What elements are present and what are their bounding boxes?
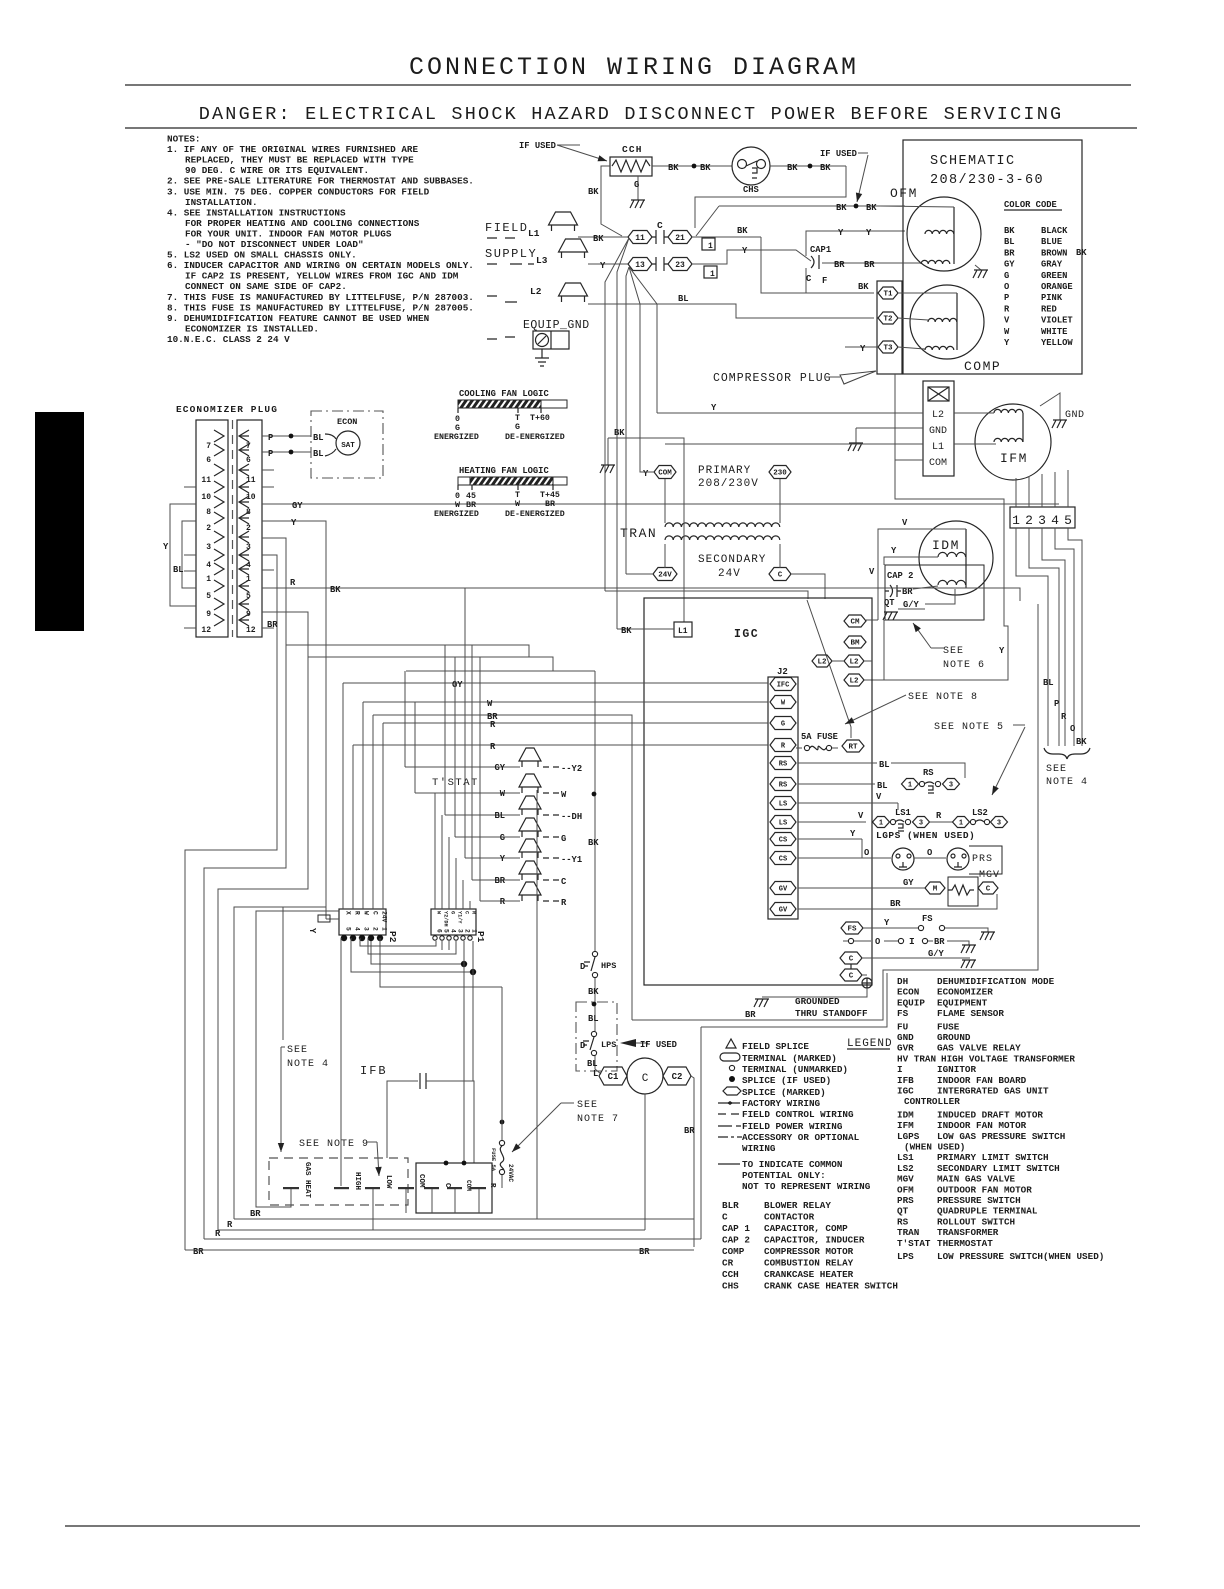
svg-text:GND: GND [897, 1032, 914, 1043]
wire C circle bottom down [644, 1094, 646, 1230]
svg-text:CONTACTOR: CONTACTOR [764, 1212, 815, 1223]
svg-text:BK: BK [700, 163, 711, 173]
grounded thru standoff [862, 974, 867, 976]
svg-text:DANGER: ELECTRICAL SHOCK HAZAR: DANGER: ELECTRICAL SHOCK HAZARD DISCONNE… [199, 104, 1064, 125]
svg-text:COM: COM [929, 458, 947, 469]
svg-text:HIGH VOLTAGE TRANSFORMER: HIGH VOLTAGE TRANSFORMER [941, 1053, 1075, 1064]
svg-text:GY: GY [292, 501, 303, 511]
svg-text:BK: BK [1004, 226, 1015, 236]
svg-text:VIOLET: VIOLET [1041, 316, 1073, 326]
svg-text:FS: FS [847, 926, 857, 934]
svg-text:PRS: PRS [897, 1195, 914, 1206]
wire HPS to LPS [594, 978, 596, 1031]
svg-text:9. DEHUMIDIFICATION FEATURE CA: 9. DEHUMIDIFICATION FEATURE CANNOT BE US… [167, 313, 429, 324]
left loop Y [170, 504, 196, 606]
svg-text:CR: CR [722, 1258, 734, 1269]
svg-text:F: F [822, 276, 827, 286]
svg-text:0: 0 [455, 415, 460, 424]
right stubs [262, 470, 274, 628]
svg-text:GVR: GVR [897, 1043, 914, 1054]
svg-text:BL: BL [877, 781, 888, 791]
svg-text:COLOR CODE: COLOR CODE [1004, 200, 1057, 210]
wire R horizontal lower [353, 744, 768, 746]
wire 21 to BK corner down [692, 236, 761, 238]
svg-text:3. USE MIN. 75 DEG. COPPER CON: 3. USE MIN. 75 DEG. COPPER CONDUCTORS FO… [167, 186, 430, 197]
svg-text:G: G [1004, 271, 1009, 281]
svg-text:FIELD SPLICE: FIELD SPLICE [742, 1041, 809, 1052]
long vertical to BR bottom [536, 790, 538, 1219]
svg-text:BK: BK [858, 282, 869, 292]
24VAC fuse [500, 1120, 505, 1125]
svg-text:P: P [1004, 293, 1009, 303]
svg-text:CRANK CASE HEATER SWITCH: CRANK CASE HEATER SWITCH [764, 1281, 898, 1292]
secondary winding [665, 536, 780, 540]
svg-text:MAIN GAS VALVE: MAIN GAS VALVE [937, 1174, 1016, 1185]
svg-text:COM: COM [417, 1174, 425, 1188]
svg-text:CCH: CCH [722, 1269, 739, 1280]
svg-text:C: C [806, 274, 812, 284]
svg-text:IGNITOR: IGNITOR [937, 1064, 976, 1075]
svg-text:BR: BR [1004, 248, 1015, 258]
svg-text:G: G [515, 423, 520, 432]
svg-text:CAP1: CAP1 [810, 245, 831, 255]
svg-text:V: V [902, 518, 908, 528]
svg-text:PRIMARY: PRIMARY [698, 465, 751, 477]
svg-text:RED: RED [1041, 304, 1057, 314]
svg-text:IF USED: IF USED [640, 1040, 677, 1050]
svg-text:CCH: CCH [622, 144, 643, 155]
primary leads [664, 479, 666, 523]
svg-text:R: R [1004, 304, 1010, 314]
svg-text:NOTE 6: NOTE 6 [943, 660, 985, 671]
svg-text:4. SEE INSTALLATION INSTRUCTIO: 4. SEE INSTALLATION INSTRUCTIONS [167, 207, 346, 218]
economizer plug left shell [196, 420, 228, 637]
wire C to G/Y ground [862, 957, 970, 959]
wire GY from pin8 [262, 503, 1059, 505]
wire BR into OFM [878, 262, 921, 264]
svg-text:V: V [1004, 316, 1010, 326]
svg-text:W: W [363, 911, 370, 915]
fan-out diagonals from contactor 13 [626, 267, 629, 574]
svg-text:LS1: LS1 [897, 1152, 914, 1163]
wire C horizontal top [308, 657, 553, 671]
svg-text:LEGEND: LEGEND [847, 1038, 893, 1050]
wire pin7 to ECON BL [262, 435, 311, 437]
svg-text:CAPACITOR, INDUCER: CAPACITOR, INDUCER [764, 1235, 865, 1246]
svg-text:24V: 24V [381, 911, 388, 923]
svg-text:Y: Y [307, 928, 317, 934]
legend factory wiring symbol [718, 1102, 740, 1104]
crank case heater switch CHS [732, 147, 770, 185]
svg-text:12: 12 [246, 626, 256, 635]
svg-text:1: 1 [959, 820, 963, 828]
svg-text:3: 3 [949, 782, 953, 790]
svg-text:3: 3 [206, 543, 211, 552]
wire P1 pin2 down to IFB board [463, 941, 465, 1163]
legend splice if used symbol [729, 1076, 735, 1082]
wire CAP1 to OFM (BR) [822, 262, 920, 264]
staircase wires plug to harness [1016, 528, 1048, 746]
legend field power wiring symbol [718, 1125, 741, 1127]
svg-text:HV TRAN: HV TRAN [897, 1053, 936, 1064]
wire L2 splice to terminal T2 [588, 304, 874, 318]
svg-text:BK: BK [787, 163, 798, 173]
svg-text:SCHEMATIC: SCHEMATIC [930, 154, 1016, 169]
wire W horizontal [363, 701, 768, 703]
wire L1 splice to hex 11 [578, 236, 628, 238]
svg-text:11: 11 [635, 234, 645, 243]
svg-text:GAS HEAT: GAS HEAT [303, 1162, 311, 1199]
svg-text:TO INDICATE COMMON: TO INDICATE COMMON [742, 1159, 842, 1170]
wire GV BR to MGV [798, 894, 997, 909]
svg-text:3: 3 [919, 820, 923, 828]
svg-text:MGV: MGV [979, 870, 1000, 881]
svg-text:2: 2 [372, 927, 379, 931]
wire Y from pin2 down left side [262, 521, 326, 919]
CAP1 top lead and Y wire to OFM [806, 231, 905, 256]
svg-text:1. IF ANY OF THE ORIGINAL WIRE: 1. IF ANY OF THE ORIGINAL WIRES FURNISHE… [167, 144, 418, 155]
marker 1 under 21 [702, 238, 715, 250]
svg-text:M: M [933, 886, 938, 894]
svg-text:FOR PROPER HEATING AND COOLING: FOR PROPER HEATING AND COOLING CONNECTIO… [185, 218, 420, 229]
svg-text:8. THIS FUSE IS MANUFACTURED B: 8. THIS FUSE IS MANUFACTURED BY LITTELFU… [167, 302, 474, 313]
svg-text:208/230V: 208/230V [698, 478, 759, 490]
wire BR bottom 1 [234, 1218, 694, 1220]
legend common potential symbol [718, 1163, 740, 1165]
svg-text:GND: GND [1065, 410, 1085, 421]
svg-text:TERMINAL (UNMARKED): TERMINAL (UNMARKED) [742, 1064, 848, 1075]
svg-text:R: R [354, 911, 361, 915]
svg-text:FIELD CONTROL WIRING: FIELD CONTROL WIRING [742, 1109, 854, 1120]
svg-text:BLOWER RELAY: BLOWER RELAY [764, 1200, 831, 1211]
svg-text:CM: CM [850, 619, 860, 627]
svg-text:CS: CS [779, 856, 787, 864]
svg-text:L3: L3 [536, 255, 548, 266]
terminal RT [842, 740, 864, 752]
field splice T-STAT G [455, 836, 520, 838]
svg-text:NOTES:: NOTES: [167, 134, 200, 145]
svg-text:Y: Y [291, 518, 297, 528]
svg-text:45: 45 [466, 492, 476, 501]
wire C hex to IGC edge [791, 574, 825, 599]
wire around legend corner [701, 973, 887, 1027]
svg-text:GND: GND [929, 426, 947, 437]
mating dashed line [232, 420, 234, 637]
svg-text:G: G [455, 424, 460, 433]
svg-text:OFM: OFM [897, 1184, 914, 1195]
svg-text:SECONDARY LIMIT SWITCH: SECONDARY LIMIT SWITCH [937, 1163, 1060, 1174]
svg-text:WHITE: WHITE [1041, 327, 1067, 337]
svg-text:T+45: T+45 [540, 491, 560, 500]
svg-text:V: V [869, 567, 875, 577]
svg-text:IFM: IFM [897, 1120, 914, 1131]
gas heat dashed box [269, 1158, 408, 1205]
legend splice marked symbol [723, 1087, 741, 1095]
svg-text:LGPS (WHEN USED): LGPS (WHEN USED) [876, 830, 975, 841]
svg-text:LS2: LS2 [897, 1163, 914, 1174]
svg-text:BR: BR [934, 937, 945, 947]
svg-text:IFM: IFM [1000, 451, 1028, 466]
wire BK to L1 [617, 628, 674, 630]
svg-text:(WHEN USED): (WHEN USED) [904, 1142, 965, 1153]
wire BR horizontal [373, 715, 632, 1020]
contactor coil C2 [663, 1067, 691, 1085]
bottom rule [65, 1525, 1140, 1527]
svg-text:IFB: IFB [360, 1064, 388, 1078]
svg-text:SEE: SEE [1046, 764, 1067, 775]
svg-text:FU: FU [897, 1021, 908, 1032]
svg-text:ENERGIZED: ENERGIZED [434, 433, 479, 442]
svg-text:24V: 24V [658, 572, 672, 580]
low pressure switch LPS [591, 1031, 596, 1036]
svg-text:Y: Y [1004, 338, 1010, 348]
wire L1 row left [665, 443, 923, 445]
wire R from pin3 down [204, 538, 286, 1239]
svg-text:COMP: COMP [964, 359, 1001, 374]
svg-text:O: O [927, 848, 932, 858]
contactor coil C1 [599, 1067, 627, 1085]
wire R bottom 3 [204, 1238, 701, 1240]
high pressure switch HPS [592, 951, 597, 956]
svg-text:C: C [657, 220, 663, 231]
svg-text:IF USED: IF USED [820, 149, 857, 159]
wire stub to ignitor row [843, 940, 848, 942]
svg-text:LOW GAS PRESSURE SWITCH: LOW GAS PRESSURE SWITCH [937, 1131, 1065, 1142]
IFB relay box [416, 1163, 492, 1213]
svg-text:L2: L2 [849, 659, 859, 667]
svg-text:RS: RS [923, 768, 934, 778]
svg-text:SEE NOTE 8: SEE NOTE 8 [908, 692, 978, 703]
svg-text:GY: GY [452, 680, 463, 690]
label IF USED (LPS) [620, 1039, 636, 1047]
wire CCH right with splices to CHS [652, 165, 732, 167]
ignitor row [848, 938, 853, 943]
svg-text:CHS: CHS [722, 1281, 739, 1292]
svg-text:BL: BL [313, 433, 324, 443]
svg-text:D: D [580, 1041, 585, 1051]
capacitor CAP2 box [885, 565, 984, 620]
svg-text:BL: BL [173, 565, 184, 575]
svg-text:QT: QT [897, 1206, 909, 1217]
svg-text:FS: FS [922, 914, 933, 924]
svg-text:Y: Y [600, 261, 606, 271]
svg-text:X: X [345, 911, 352, 915]
svg-text:Y: Y [500, 854, 506, 864]
svg-text:1: 1 [246, 575, 251, 584]
svg-text:BL: BL [588, 1014, 599, 1024]
svg-text:C: C [849, 973, 854, 981]
HPS splice [592, 792, 597, 797]
svg-text:I: I [909, 936, 915, 947]
svg-text:LOW PRESSURE SWITCH(WHEN USED): LOW PRESSURE SWITCH(WHEN USED) [937, 1251, 1104, 1262]
svg-text:W: W [500, 789, 506, 799]
svg-text:FOR YOUR UNIT. INDOOR FAN MOTO: FOR YOUR UNIT. INDOOR FAN MOTOR PLUGS [185, 228, 392, 239]
svg-text:G: G [561, 834, 566, 844]
terminal L1 on IGC [674, 622, 692, 637]
field splice T-STAT W [415, 792, 520, 794]
terminal 230 [769, 466, 791, 479]
svg-text:BK: BK [668, 163, 679, 173]
svg-text:NOTE 4: NOTE 4 [287, 1059, 329, 1070]
wire CS to Y [798, 838, 862, 840]
svg-text:OUTDOOR FAN MOTOR: OUTDOOR FAN MOTOR [937, 1184, 1032, 1195]
svg-text:T1: T1 [883, 291, 893, 299]
economizer accessory dashed box ECON [311, 411, 383, 478]
svg-text:FIELD: FIELD [485, 221, 529, 235]
svg-text:R: R [500, 897, 506, 907]
IDM winding frame [965, 529, 967, 588]
svg-text:CHS: CHS [743, 185, 759, 195]
svg-text:NOTE 4: NOTE 4 [1046, 777, 1088, 788]
wires T1 T2 T3 into COMP [898, 292, 957, 294]
svg-text:NOT TO REPRESENT WIRING: NOT TO REPRESENT WIRING [742, 1181, 871, 1192]
terminals C C on IGC [840, 952, 862, 964]
svg-text:P: P [1054, 699, 1059, 709]
economizer plug right shell [237, 420, 262, 637]
terminal BM [844, 636, 866, 648]
svg-text:C: C [372, 911, 379, 915]
svg-text:PRS: PRS [972, 854, 993, 865]
terminal T1 [878, 287, 898, 299]
svg-text:24VAC: 24VAC [507, 1164, 514, 1182]
wire GND row to ground [856, 427, 923, 429]
svg-text:IFB: IFB [897, 1075, 914, 1086]
quadruple terminal QT block [923, 381, 954, 476]
svg-text:GREEN: GREEN [1041, 271, 1067, 281]
svg-text:LS2: LS2 [972, 808, 988, 818]
marker 1 under 23 [704, 266, 717, 278]
leader arrow to plug [826, 376, 840, 378]
wire 24V left [626, 573, 653, 575]
svg-text:J2: J2 [777, 667, 788, 677]
svg-text:LPS: LPS [897, 1251, 914, 1262]
leader to CCH [557, 145, 607, 161]
svg-text:1: 1 [381, 927, 388, 931]
economizer pin contacts and numbers [214, 430, 224, 442]
svg-text:GV: GV [779, 907, 788, 915]
svg-text:FACTORY WIRING: FACTORY WIRING [742, 1098, 821, 1109]
svg-text:Y: Y [999, 646, 1005, 656]
svg-text:2: 2 [206, 524, 211, 533]
svg-text:C: C [986, 886, 991, 894]
svg-text:ORANGE: ORANGE [1041, 282, 1073, 292]
P2 feed verticals [342, 683, 344, 909]
svg-text:RT: RT [848, 744, 858, 752]
wire LS upper row to LS2 [897, 803, 899, 810]
wire BK into OFM [880, 206, 954, 207]
svg-text:Y: Y [891, 546, 897, 556]
ground under EQUIP_GND [535, 349, 549, 366]
svg-text:CAPACITOR, COMP: CAPACITOR, COMP [764, 1223, 848, 1234]
svg-text:GAS VALVE RELAY: GAS VALVE RELAY [937, 1043, 1021, 1054]
svg-text:SPLICE (IF USED): SPLICE (IF USED) [742, 1075, 831, 1086]
svg-text:1: 1 [708, 242, 713, 251]
terminal C (IFB) [424, 1187, 439, 1189]
Y splice box into P2 [326, 918, 339, 920]
svg-text:G/Y: G/Y [928, 949, 945, 959]
svg-text:PINK: PINK [1041, 293, 1063, 303]
svg-text:COM: COM [465, 1180, 472, 1191]
svg-text:COMP: COMP [722, 1246, 745, 1257]
contactor coil C [627, 1058, 663, 1094]
wire COM row loop to L2 [864, 460, 1008, 680]
svg-text:1: 1 [908, 782, 912, 790]
svg-text:4: 4 [450, 929, 457, 933]
svg-text:Y: Y [866, 228, 872, 238]
svg-text:208/230-3-60: 208/230-3-60 [930, 173, 1044, 188]
wire cap left lead [387, 1081, 418, 1158]
svg-text:QT: QT [884, 598, 895, 608]
svg-text:P: P [268, 433, 273, 443]
svg-text:3: 3 [457, 929, 464, 933]
svg-text:W: W [561, 790, 567, 800]
svg-text:HIGH: HIGH [353, 1172, 361, 1190]
wire CAP2 corner drop [883, 620, 885, 680]
wire CM to CAP2 column [866, 619, 878, 621]
svg-text:BK: BK [836, 203, 847, 213]
svg-text:BK: BK [1076, 248, 1087, 258]
svg-text:FIELD POWER WIRING: FIELD POWER WIRING [742, 1121, 843, 1132]
svg-text:LPS: LPS [601, 1040, 616, 1050]
svg-text:5: 5 [1064, 513, 1072, 528]
svg-text:LS: LS [779, 801, 787, 809]
wire IFM to ground GND [1040, 393, 1060, 420]
legend field control wiring symbol [718, 1113, 739, 1115]
wire P1 pin1 down to IFB cap wire [472, 941, 474, 1081]
svg-text:11: 11 [246, 476, 256, 485]
svg-text:COOLING FAN LOGIC: COOLING FAN LOGIC [459, 389, 549, 399]
svg-text:6: 6 [206, 456, 211, 465]
svg-text:COMPRESSOR MOTOR: COMPRESSOR MOTOR [764, 1246, 854, 1257]
svg-text:BLR: BLR [722, 1200, 739, 1211]
svg-text:EQUIP: EQUIP [897, 997, 925, 1008]
svg-text:Y: Y [884, 918, 890, 928]
terminal T2 [878, 312, 898, 324]
svg-text:TRAN: TRAN [897, 1227, 919, 1238]
svg-text:POTENTIAL ONLY:: POTENTIAL ONLY: [742, 1170, 826, 1181]
svg-text:INTERGRATED GAS UNIT: INTERGRATED GAS UNIT [937, 1086, 1049, 1097]
svg-text:GROUND: GROUND [937, 1032, 971, 1043]
svg-text:TRANSFORMER: TRANSFORMER [937, 1227, 999, 1238]
svg-text:--Y1: --Y1 [561, 855, 582, 865]
wire branch to left nest [234, 907, 326, 1219]
svg-text:5A FUSE: 5A FUSE [801, 732, 838, 742]
diagonal from hex 21 to BK wire [696, 206, 719, 236]
svg-text:ROLLOUT SWITCH: ROLLOUT SWITCH [937, 1216, 1015, 1227]
svg-text:SEE: SEE [943, 646, 964, 657]
legend accessory wiring symbol [718, 1136, 742, 1138]
svg-text:MGV: MGV [897, 1174, 914, 1185]
svg-text:SUPPLY: SUPPLY [485, 247, 537, 261]
svg-text:O: O [875, 937, 880, 947]
terminal LOW [365, 1187, 380, 1189]
wire BK from pin5 [262, 588, 1020, 601]
svg-text:230: 230 [773, 470, 787, 478]
svg-text:W: W [487, 699, 493, 709]
svg-text:CAP 2: CAP 2 [887, 571, 913, 581]
svg-text:BROWN: BROWN [1041, 248, 1067, 258]
contactor contact C (pole 2) [652, 257, 668, 271]
svg-text:6: 6 [436, 929, 443, 933]
contactor pole terminal 23 [668, 258, 692, 271]
svg-text:RS: RS [779, 761, 787, 769]
wire GY long horizontal [343, 682, 768, 684]
connector P2 [339, 909, 386, 935]
svg-text:W: W [1004, 327, 1010, 337]
wire vertical to HPS [594, 671, 596, 951]
svg-text:QUADRUPLE TERMINAL: QUADRUPLE TERMINAL [937, 1206, 1038, 1217]
svg-text:CAP 2: CAP 2 [722, 1235, 750, 1246]
